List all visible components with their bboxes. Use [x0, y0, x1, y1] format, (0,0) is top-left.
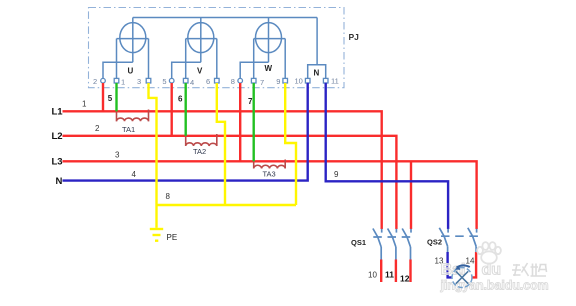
phase line L1 — [63, 111, 382, 229]
svg-text:L1: L1 — [52, 107, 64, 118]
yellow earth wire from terminal 6 — [217, 83, 225, 205]
neutral element N bridge wire to terminals 10 and 11 — [308, 65, 326, 78]
yellow earth wire from terminal 9 — [285, 83, 296, 205]
svg-text:jingyan.baidu.com: jingyan.baidu.com — [440, 279, 549, 293]
element W center vertical wire — [268, 18, 270, 63]
terminal 11 (square) — [323, 78, 328, 83]
breaker QS1 pole 2 contact — [388, 229, 397, 260]
terminal 8 (circle) — [238, 78, 243, 83]
svg-text:Bai: Bai — [441, 262, 466, 279]
svg-text:8: 8 — [231, 77, 235, 86]
PE ground symbol — [150, 229, 163, 241]
element U current coil wire — [117, 38, 149, 40]
element U center vertical wire — [132, 18, 134, 63]
svg-text:9: 9 — [334, 170, 339, 179]
watermark compass arrow — [457, 265, 470, 267]
QS1 dashed gang link — [373, 236, 413, 238]
breaker QS1 pole 3 contact — [402, 229, 411, 260]
output wire 11 of QS1 — [395, 260, 397, 283]
svg-text:N: N — [314, 69, 320, 78]
measuring element V: ellipse — [188, 23, 214, 53]
svg-text:10: 10 — [368, 271, 377, 280]
svg-text:9: 9 — [276, 77, 280, 86]
svg-text:TA1: TA1 — [122, 125, 135, 134]
internal top bus wire of meter — [133, 17, 317, 19]
element U voltage tap wire to terminal 2 — [103, 62, 133, 78]
breaker QS2 pole 2 contact — [468, 228, 477, 252]
terminal 1 (square) — [114, 78, 119, 83]
terminal 3 (square) — [146, 78, 151, 83]
svg-text:1: 1 — [82, 100, 87, 109]
terminal 4 (square) — [183, 78, 188, 83]
svg-text:6: 6 — [178, 95, 183, 104]
svg-text:2: 2 — [93, 77, 97, 86]
green wire 7: terminal 7 to L3/TA3 — [252, 83, 254, 161]
branch wire from L3 to QS1 pole 3 — [410, 161, 412, 229]
lamp / compass watermark circle at QS2 output — [452, 268, 472, 288]
phase line L3 — [63, 161, 477, 229]
svg-text:10: 10 — [295, 77, 303, 86]
svg-text:7: 7 — [248, 97, 253, 106]
terminal 10 (square) — [305, 78, 310, 83]
lamp cross (X) — [456, 271, 468, 283]
output wire 13 of QS2 (neutral, to lamp) — [448, 252, 453, 277]
svg-text:7: 7 — [260, 78, 264, 87]
svg-text:N: N — [56, 176, 63, 187]
output wire 10 of QS1 — [380, 260, 382, 283]
svg-text:V: V — [197, 67, 203, 76]
svg-text:PJ: PJ — [349, 32, 360, 42]
svg-text:PE: PE — [167, 233, 178, 242]
wire drop to terminal 3 — [148, 39, 150, 79]
element V current coil wire — [186, 38, 217, 40]
svg-text:11: 11 — [331, 77, 339, 86]
current transformer TA3 — [254, 160, 286, 169]
svg-text:1: 1 — [121, 78, 125, 87]
terminal 5 (circle) — [169, 78, 174, 83]
measuring element U: ellipse — [120, 23, 146, 53]
svg-text:12: 12 — [400, 274, 410, 284]
red voltage wire terminal 5 to L2 — [170, 83, 172, 136]
neutral line N — [63, 83, 308, 181]
svg-text:11: 11 — [385, 270, 394, 280]
wire drop to terminal 4 — [185, 39, 187, 79]
current transformer TA1 — [117, 110, 149, 122]
element W current coil wire — [254, 38, 286, 40]
svg-text:QS1: QS1 — [351, 238, 366, 247]
element W voltage tap wire to terminal 8 — [240, 62, 268, 78]
breaker QS2 pole 1 contact — [439, 228, 448, 252]
svg-text:3: 3 — [137, 77, 141, 86]
yellow wire drop to PE ground — [155, 205, 157, 228]
output wire 14 of QS2 (phase, to lamp) — [473, 252, 477, 277]
svg-text:4: 4 — [190, 78, 194, 87]
terminal 7 (square) — [251, 78, 256, 83]
green wire 5: terminal 1 to L1/TA1 — [115, 83, 117, 111]
watermark Baidu paw logo — [477, 242, 501, 264]
svg-text:14: 14 — [466, 257, 475, 266]
svg-text:U: U — [128, 67, 134, 76]
svg-text:3: 3 — [115, 151, 120, 160]
output wire 12 of QS1 — [409, 260, 411, 283]
wire drop to terminal 1 — [116, 39, 118, 79]
svg-text:L3: L3 — [52, 157, 63, 168]
svg-text:4: 4 — [132, 170, 137, 179]
terminal 6 (square) — [215, 78, 220, 83]
energy meter PJ dashed enclosure — [89, 8, 345, 88]
phase line L2 — [63, 136, 397, 229]
red voltage wire terminal 2 to L1 — [102, 83, 104, 111]
svg-text:L2: L2 — [52, 131, 63, 142]
wire drop to terminal 7 — [253, 39, 255, 79]
svg-text:QS2: QS2 — [427, 238, 442, 247]
QS2 dashed gang link — [441, 235, 479, 237]
svg-text:W: W — [265, 64, 273, 73]
element V center vertical wire — [200, 18, 202, 63]
wire drop to terminal 9 — [284, 39, 286, 79]
measuring element W: ellipse — [256, 23, 282, 53]
watermark chinese characters jingyan — [512, 263, 547, 276]
element V voltage tap wire to terminal 5 — [172, 62, 201, 78]
svg-text:TA3: TA3 — [263, 170, 276, 179]
red voltage wire terminal 8 to L3 — [239, 83, 241, 161]
yellow earth bus wire 8 — [157, 204, 297, 206]
green wire 6: terminal 4 to L2/TA2 — [184, 83, 186, 136]
breaker QS1 pole 1 contact — [373, 229, 382, 260]
terminal 9 (square) — [283, 78, 288, 83]
svg-text:5: 5 — [108, 94, 113, 103]
neutral element N drop wire from top bus — [316, 18, 318, 65]
svg-text:8: 8 — [166, 192, 171, 201]
wire drop to terminal 6 — [216, 39, 218, 79]
svg-text:5: 5 — [162, 77, 166, 86]
svg-text:TA2: TA2 — [193, 147, 206, 156]
svg-text:2: 2 — [95, 124, 100, 133]
current transformer TA2 — [186, 134, 217, 146]
yellow earth wire from terminal 3 — [149, 83, 157, 205]
terminal 2 (circle) — [101, 78, 106, 83]
blue neutral wire 9: terminal 11 to QS2 — [326, 83, 448, 229]
svg-text:6: 6 — [206, 77, 210, 86]
